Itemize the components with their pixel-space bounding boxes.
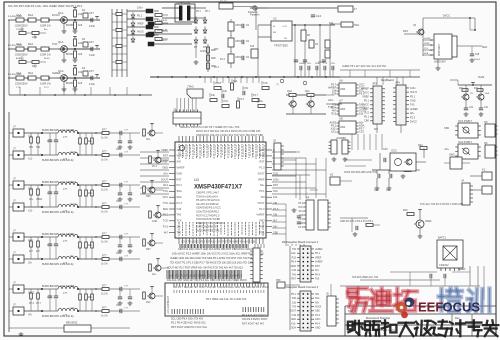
svg-text:DVCC P2.3 TA0 SCL XIN P2.3 DVC: DVCC P2.3 TA0 SCL XIN P2.3 DVCC P6.4 P2.…: [196, 130, 261, 133]
svg-text:RST/VCC/TA0/P1.0: RST/VCC/TA0/P1.0: [196, 213, 220, 217]
svg-text:J2: J2: [173, 108, 176, 112]
svg-text:L7?: L7?: [63, 136, 68, 139]
svg-text:R12: R12: [292, 256, 297, 259]
svg-text:TA0 P2.3 DVCC XOUT: TA0 P2.3 DVCC XOUT: [242, 318, 268, 321]
svg-text:100uF: 100uF: [318, 62, 325, 64]
svg-text:SDA: SDA: [163, 207, 169, 211]
svg-text:OC1 PC817: OC1 PC817: [458, 119, 473, 123]
svg-text:R77: R77: [102, 150, 107, 153]
svg-text:P1.0: P1.0: [298, 219, 303, 221]
svg-text:GND: GND: [152, 221, 157, 223]
svg-text:K2: K2: [330, 173, 334, 177]
svg-text:Q5: Q5: [484, 120, 488, 124]
svg-text:P5.1: P5.1: [19, 58, 24, 60]
svg-text:Q1A: Q1A: [58, 40, 64, 44]
svg-text:Q10: Q10: [287, 89, 292, 93]
svg-text:XIN: XIN: [315, 293, 319, 296]
svg-text:1k 1%: 1k 1%: [101, 315, 109, 318]
svg-text:10k: 10k: [78, 12, 83, 16]
svg-text:OC2 PC817: OC2 PC817: [458, 140, 473, 144]
svg-text:C1A: C1A: [16, 13, 21, 17]
svg-text:TA0: TA0: [36, 146, 41, 149]
svg-text:TCK: TCK: [263, 82, 268, 85]
svg-text:48R: 48R: [154, 10, 159, 13]
svg-text:RF Daughter Board Connect 1: RF Daughter Board Connect 1: [282, 240, 319, 244]
svg-text:48R: 48R: [211, 65, 216, 68]
svg-text:SDA: SDA: [424, 52, 429, 55]
svg-text:CB0 R12 100n XOUT GND 4k7 AVSS: CB0 R12 100n XOUT GND 4k7 AVSS CB0 RST C…: [178, 248, 257, 251]
svg-text:R99 0R22: R99 0R22: [66, 322, 78, 325]
svg-text:U6: U6: [339, 79, 343, 83]
svg-text:DVCC: DVCC: [410, 121, 417, 124]
svg-text:10k A12- RST GND 4k7 XIN P1.0: 10k A12- RST GND 4k7 XIN P1.0 A0+ CB0 C3…: [167, 279, 247, 282]
svg-text:100n: 100n: [315, 318, 321, 321]
svg-text:R12: R12: [331, 112, 336, 116]
svg-text:XOUT: XOUT: [161, 177, 169, 181]
svg-text:VREF: VREF: [137, 23, 144, 26]
svg-text:SDA: SDA: [482, 46, 487, 49]
svg-text:XOUT: XOUT: [70, 182, 77, 184]
svg-text:R12: R12: [163, 183, 168, 187]
svg-text:L-Line-B: L-Line-B: [157, 28, 167, 32]
svg-text:RF Daughter Board Connect 2: RF Daughter Board Connect 2: [282, 285, 319, 289]
svg-text:A0+: A0+: [260, 183, 265, 187]
svg-text:SDA: SDA: [291, 318, 296, 321]
svg-text:OCUS: OCUS: [443, 300, 481, 315]
svg-text:Ow0t: Ow0t: [478, 75, 485, 79]
svg-text:13nF: 13nF: [89, 82, 95, 86]
svg-text:XIN: XIN: [307, 63, 311, 65]
svg-text:XIN: XIN: [177, 160, 181, 164]
svg-text:XOUT: XOUT: [70, 152, 77, 154]
svg-text:C4x: C4x: [386, 189, 391, 192]
svg-text:P2.3: P2.3: [239, 98, 245, 101]
svg-text:SDA: SDA: [291, 327, 296, 330]
svg-text:VREF: VREF: [36, 199, 43, 201]
svg-text:R42: R42: [418, 144, 423, 147]
svg-text:SCL: SCL: [298, 211, 303, 213]
svg-text:OPA: OPA: [340, 107, 346, 111]
svg-text:L7?: L7?: [63, 314, 68, 317]
svg-text:K1: K1: [482, 168, 486, 172]
svg-text:R1A: R1A: [28, 71, 33, 75]
svg-text:TDI/A0+/100n/A0+: TDI/A0+/100n/A0+: [196, 194, 219, 198]
svg-text:C33: C33: [177, 207, 182, 211]
svg-text:CB0/P3.7/P5.1/4k7: CB0/P3.7/P5.1/4k7: [196, 191, 219, 195]
svg-text:P5.1: P5.1: [259, 230, 265, 234]
svg-text:1k 1%: 1k 1%: [101, 189, 109, 192]
svg-text:P1.0: P1.0: [259, 207, 265, 211]
svg-text:D13: D13: [250, 46, 255, 48]
svg-text:10uF: 10uF: [316, 16, 322, 18]
svg-text:R1A: R1A: [28, 42, 33, 46]
svg-text:VREF: VREF: [315, 256, 322, 259]
svg-text:SCL: SCL: [146, 139, 151, 141]
svg-text:TCK: TCK: [163, 189, 168, 193]
svg-text:P6.4: P6.4: [177, 183, 183, 187]
svg-text:GND: GND: [177, 171, 183, 175]
svg-text:VCC: VCC: [177, 154, 183, 158]
svg-text:VeREF GND 10k SDA GND TCK SDA: VeREF GND 10k SDA GND TCK SDA P5.1 AVSS …: [170, 257, 258, 260]
svg-text:LM92CIM?: LM92CIM?: [434, 61, 446, 64]
svg-text:AVSS: AVSS: [44, 57, 50, 60]
svg-text:P2.3: P2.3: [152, 166, 157, 168]
svg-text:RST: RST: [146, 249, 151, 251]
svg-text:P5.1: P5.1: [410, 95, 416, 98]
svg-text:RST: RST: [315, 265, 320, 268]
svg-text:CR2032: CR2032: [439, 263, 449, 267]
svg-text:A12-: A12-: [291, 252, 296, 255]
svg-text:P5.1: P5.1: [364, 100, 370, 103]
svg-text:L7?: L7?: [63, 262, 68, 265]
svg-text:P2.3: P2.3: [410, 116, 416, 119]
svg-text:OPA: OPA: [340, 87, 346, 91]
svg-text:VCC: VCC: [298, 207, 303, 209]
svg-text:10k: 10k: [78, 70, 83, 74]
svg-text:uCOMM: uCOMM: [336, 136, 346, 140]
svg-text:SDA: SDA: [177, 195, 183, 199]
svg-text:EEF: EEF: [418, 300, 443, 315]
svg-text:SDA A0+ DVCC P2.3 4k7 P3.7 VeR: SDA A0+ DVCC P2.3 4k7 P3.7 VeREF P3.7 A0…: [180, 126, 240, 129]
svg-text:AVSS: AVSS: [137, 31, 144, 34]
svg-text:A12-: A12-: [291, 322, 296, 325]
svg-text:C31: C31: [484, 107, 489, 109]
svg-text:10k: 10k: [273, 195, 278, 199]
svg-text:Q11: Q11: [305, 89, 310, 93]
svg-text:T1 PE-65612: T1 PE-65612: [176, 1, 191, 4]
svg-text:C1A: C1A: [16, 42, 21, 46]
svg-text:U7: U7: [339, 99, 343, 103]
svg-text:RST: RST: [259, 225, 265, 229]
svg-text:JP4: JP4: [395, 81, 400, 85]
svg-text:R77: R77: [102, 254, 107, 257]
svg-text:TDI: TDI: [292, 248, 296, 251]
svg-text:1k5: 1k5: [78, 81, 83, 85]
svg-text:P3.7: P3.7: [70, 234, 75, 236]
svg-text:MOV: MOV: [236, 39, 242, 43]
svg-text:VeREF: VeREF: [424, 38, 431, 40]
svg-text:EN: EN: [273, 32, 276, 34]
svg-text:100R 1%: 100R 1%: [40, 24, 51, 28]
svg-text:13nF: 13nF: [89, 53, 95, 57]
svg-text:1k 1%: 1k 1%: [101, 241, 109, 244]
svg-text:C40: C40: [383, 148, 388, 151]
svg-text:C33: C33: [292, 269, 297, 272]
svg-text:J4: J4: [461, 179, 464, 183]
svg-text:48R: 48R: [154, 34, 159, 37]
svg-text:100n: 100n: [70, 308, 76, 310]
svg-text:BC846: BC846: [66, 53, 74, 56]
svg-text:XIN: XIN: [331, 63, 335, 65]
svg-text:SCL: SCL: [331, 130, 337, 134]
svg-text:RST: RST: [273, 183, 279, 187]
svg-text:TPS77533: TPS77533: [274, 44, 288, 48]
svg-text:C33: C33: [292, 314, 297, 317]
svg-text:4k7: 4k7: [164, 230, 169, 234]
svg-text:XOUT: XOUT: [257, 171, 265, 175]
svg-text:10k: 10k: [359, 112, 364, 116]
svg-text:C4?: C4?: [89, 11, 94, 15]
svg-text:LCD-CONNECT: LCD-CONNECT: [167, 295, 170, 314]
svg-text:GND: GND: [19, 29, 24, 31]
svg-text:XOUT P5.1 DVCC P2.3 RST A12- X: XOUT P5.1 DVCC P2.3 RST A12- XOUT RST TA…: [181, 241, 256, 244]
svg-text:13nF: 13nF: [89, 24, 95, 28]
svg-text:CB0: CB0: [364, 120, 369, 123]
svg-text:XIN: XIN: [28, 315, 32, 317]
svg-text:GND: GND: [32, 37, 37, 39]
svg-text:C4x: C4x: [374, 189, 379, 192]
svg-text:1k5: 1k5: [78, 23, 83, 27]
svg-text:TCK: TCK: [328, 105, 334, 109]
svg-text:R31: R31: [474, 88, 479, 90]
svg-text:2200/250V: 2200/250V: [15, 82, 28, 86]
svg-text:P1.0: P1.0: [259, 166, 265, 170]
svg-text:P5.1: P5.1: [259, 189, 265, 193]
svg-text:C31: C31: [469, 107, 474, 109]
svg-text:100n: 100n: [273, 177, 279, 181]
svg-text:100R 1%: 100R 1%: [40, 53, 51, 57]
svg-text:P5.1 P6.4 CB0 A12- AVSS SCL: P5.1 P6.4 CB0 A12- AVSS SCL: [171, 322, 207, 325]
svg-text:100R 1%: 100R 1%: [40, 82, 51, 86]
svg-text:JTAG: JTAG: [187, 85, 194, 89]
svg-text:OPA: OPA: [340, 125, 346, 129]
svg-text:TDI XOUT P1.0 P1.0 CB0 P3.7 TD: TDI XOUT P1.0 P1.0 CB0 P3.7 TDI AVSS TDI…: [170, 262, 254, 265]
svg-text:U8: U8: [339, 117, 343, 121]
svg-text:GND: GND: [259, 219, 265, 223]
svg-text:A12-: A12-: [328, 98, 334, 102]
svg-text:4k7: 4k7: [177, 148, 182, 152]
svg-text:XOUT: XOUT: [410, 91, 417, 94]
svg-text:VCC: VCC: [163, 195, 169, 199]
svg-text:J5: J5: [273, 139, 276, 143]
svg-text:XIN: XIN: [244, 87, 248, 90]
svg-text:A0+: A0+: [410, 112, 415, 115]
svg-text:R12: R12: [146, 302, 151, 304]
svg-text:MOV: MOV: [236, 55, 242, 59]
svg-text:GND DVCC 100n P1.0 100n SCL TC: GND DVCC 100n P1.0 100n SCL TCK VCC TA0 …: [196, 134, 264, 137]
svg-text:VeREF P5.1 4k7 100n SCL SCL R1: VeREF P5.1 4k7 100n SCL SCL R12 TA0: [342, 65, 387, 68]
svg-text:TCK: TCK: [163, 219, 168, 223]
svg-text:R31: R31: [459, 88, 464, 90]
svg-text:P6.4: P6.4: [315, 322, 321, 325]
svg-text:P1.0: P1.0: [163, 225, 169, 229]
svg-text:CB0: CB0: [444, 127, 449, 130]
svg-text:TA0: TA0: [292, 297, 297, 300]
svg-text:L7?: L7?: [63, 188, 68, 191]
svg-text:P6.4 A12- P3.7 DVCC: P6.4 A12- P3.7 DVCC: [242, 314, 267, 317]
svg-text:L7?: L7?: [63, 240, 68, 243]
svg-text:48R: 48R: [211, 57, 216, 60]
svg-text:GND: GND: [291, 265, 297, 268]
svg-text:GND: GND: [410, 99, 416, 102]
svg-text:A0+: A0+: [163, 171, 168, 175]
svg-text:XOUT: XOUT: [289, 310, 296, 313]
svg-text:P3.7: P3.7: [36, 303, 41, 305]
svg-text:DVCC: DVCC: [443, 15, 450, 18]
svg-text:VREF: VREF: [161, 148, 168, 152]
svg-text:RST XOUT GND P6.4 VCC SCL: RST XOUT GND P6.4 VCC SCL: [171, 326, 208, 329]
svg-text:XOUT 4k7 P3.7 RST VREF A0+ XIN: XOUT 4k7 P3.7 RST VREF A0+ XIN TA0 TCK T…: [167, 267, 244, 270]
svg-text:1k5: 1k5: [78, 52, 83, 56]
svg-text:Q1A: Q1A: [58, 69, 64, 73]
svg-text:L7?: L7?: [63, 158, 68, 161]
svg-text:100n/TDI/SDA/R12: 100n/TDI/SDA/R12: [196, 210, 220, 214]
svg-text:RST: RST: [259, 154, 265, 158]
svg-text:P5.1: P5.1: [196, 11, 201, 13]
svg-text:RST: RST: [177, 177, 183, 181]
svg-text:VeREF: VeREF: [299, 63, 307, 65]
svg-text:TA0: TA0: [315, 278, 320, 281]
svg-text:TA0: TA0: [177, 230, 182, 234]
svg-text:TCK: TCK: [177, 219, 182, 223]
svg-text:P2.3: P2.3: [220, 59, 225, 61]
svg-text:JP3: JP3: [372, 82, 377, 86]
svg-text:L-Line-C: L-Line-C: [157, 38, 167, 42]
svg-text:Q1A: Q1A: [58, 11, 64, 15]
svg-text:A12- VCC P2.3 P2.3 GND XIN A0+: A12- VCC P2.3 P2.3 GND XIN A0+ C33 SCL 1…: [169, 275, 243, 278]
svg-text:P6.4/P3.7/R12/VCC: P6.4/P3.7/R12/VCC: [196, 198, 220, 202]
svg-text:A12-: A12-: [28, 158, 33, 161]
svg-text:OUT: OUT: [282, 26, 287, 28]
svg-text:OC3: OC3: [391, 149, 397, 153]
svg-text:RST: RST: [259, 160, 265, 164]
svg-text:RST: RST: [163, 154, 169, 158]
svg-text:TA0 SDA VREF A12- TA0: TA0 SDA VREF A12- TA0: [352, 276, 379, 279]
svg-text:(?): (?): [276, 84, 279, 86]
svg-text:RST: RST: [291, 278, 296, 281]
svg-text:L-Line-A: L-Line-A: [157, 18, 167, 22]
svg-text:XIN: XIN: [29, 147, 33, 149]
svg-text:VREF: VREF: [362, 96, 369, 99]
svg-text:P2.3: P2.3: [177, 201, 183, 205]
svg-text:4k7: 4k7: [315, 269, 320, 272]
svg-text:XOUT: XOUT: [257, 201, 265, 205]
svg-text:CB0: CB0: [146, 196, 151, 198]
svg-text:A0+: A0+: [315, 301, 320, 304]
svg-text:TA0: TA0: [273, 189, 278, 193]
svg-text:VREF: VREF: [424, 43, 430, 45]
svg-text:TA0: TA0: [410, 104, 415, 107]
svg-text:TA0: TA0: [292, 273, 297, 276]
svg-text:U2: U2: [273, 17, 277, 21]
svg-text:A0+: A0+: [259, 100, 264, 103]
svg-text:VCC: VCC: [364, 92, 369, 95]
svg-text:1k 1%: 1k 1%: [101, 211, 109, 214]
svg-text:TDI: TDI: [470, 93, 474, 95]
svg-text:C33: C33: [359, 130, 364, 134]
svg-text:P5.1: P5.1: [205, 11, 210, 13]
svg-text:XOUT: XOUT: [70, 204, 77, 206]
svg-text:U1: U1: [194, 177, 200, 182]
svg-text:VeREF: VeREF: [315, 248, 323, 251]
svg-text:C4?: C4?: [89, 40, 94, 44]
svg-text:10k: 10k: [78, 41, 83, 45]
svg-text:BURR-BROWN 2322-640-9p: BURR-BROWN 2322-640-9p: [42, 315, 74, 318]
svg-text:P2.3: P2.3: [315, 314, 321, 317]
svg-text:GND: GND: [162, 166, 168, 170]
svg-text:VCC: VCC: [223, 100, 228, 103]
svg-text:R77: R77: [102, 232, 107, 235]
svg-text:K4: K4: [306, 196, 310, 200]
svg-text:BURR-BROWN 2322-640-9p: BURR-BROWN 2322-640-9p: [42, 263, 74, 266]
svg-text:1k 1%: 1k 1%: [101, 159, 109, 162]
svg-text:BC846: BC846: [66, 24, 74, 27]
svg-text:100n DVCC P2.3 VeREF 100n 10k: 100n DVCC P2.3 VeREF 100n 10k VCC P2.3 V…: [172, 253, 264, 256]
svg-text:A0+: A0+: [444, 148, 449, 151]
svg-text:SW1: SW1: [354, 24, 360, 27]
svg-text:2200/250V: 2200/250V: [15, 24, 28, 28]
svg-text:R77: R77: [102, 284, 107, 287]
svg-text:AVSS XIN SDA CB0 GND TCK: AVSS XIN SDA CB0 GND TCK: [344, 171, 377, 174]
svg-text:AVSS: AVSS: [315, 305, 322, 308]
svg-text:TCK: TCK: [52, 42, 58, 46]
svg-text:VeREF: VeREF: [256, 213, 265, 217]
svg-text:BC846: BC846: [66, 82, 74, 85]
svg-text:TDI/TA0/XOUT/CB0: TDI/TA0/XOUT/CB0: [196, 217, 220, 221]
svg-text:GND P2.3 P1.0 P2.3 P1.0 P5.1: GND P2.3 P1.0 P2.3 P1.0 P5.1: [340, 220, 374, 223]
svg-text:P5.1: P5.1: [359, 92, 365, 96]
svg-text:L7?: L7?: [63, 210, 68, 213]
svg-text:A0+: A0+: [29, 198, 34, 201]
svg-text:A0+/P2.3/C33/R12: A0+/P2.3/C33/R12: [196, 202, 219, 206]
svg-text:1k 1%: 1k 1%: [101, 137, 109, 140]
svg-text:SDA: SDA: [177, 189, 183, 193]
svg-text:XMSP430F471X7: XMSP430F471X7: [194, 185, 243, 191]
svg-text:SCL XIN RST GND P2.3 A0+ 100n: SCL XIN RST GND P2.3 A0+ 100n VeREF VREF…: [8, 4, 83, 8]
svg-text:TCK A12- TA0 P2.3 XIN P3.7 AVS: TCK A12- TA0 P2.3 XIN P3.7 AVSS CB0: [420, 203, 464, 206]
svg-text:VeREF: VeREF: [458, 268, 466, 271]
svg-text:A12-: A12-: [28, 210, 33, 213]
svg-text:2200/250V: 2200/250V: [15, 53, 28, 57]
svg-text:1k 1%: 1k 1%: [101, 293, 109, 296]
svg-text:VeREF: VeREF: [177, 166, 186, 170]
svg-text:L7?: L7?: [63, 292, 68, 295]
svg-text:4k7: 4k7: [374, 128, 379, 131]
svg-text:C1A: C1A: [16, 71, 21, 75]
svg-text:P6.4: P6.4: [291, 261, 297, 264]
svg-text:1k 1%: 1k 1%: [101, 263, 109, 266]
svg-text:R40: R40: [403, 209, 408, 212]
svg-text:P3.7: P3.7: [253, 94, 259, 97]
svg-text:SDA: SDA: [485, 92, 490, 95]
svg-text:P5.1: P5.1: [291, 293, 297, 296]
svg-text:BURR-BROWN 2322-640-9p: BURR-BROWN 2322-640-9p: [42, 159, 74, 162]
svg-text:100n: 100n: [410, 87, 416, 90]
svg-text:C28: C28: [475, 54, 480, 56]
svg-text:48R: 48R: [211, 49, 216, 52]
svg-text:XIN: XIN: [273, 201, 277, 205]
svg-text:BATT1: BATT1: [438, 236, 446, 240]
svg-text:100nF: 100nF: [474, 59, 481, 61]
svg-text:P2.3: P2.3: [298, 227, 303, 229]
svg-text:VeREF: VeREF: [410, 108, 418, 111]
svg-text:AVSS: AVSS: [200, 50, 206, 53]
svg-text:SDA: SDA: [70, 285, 75, 288]
svg-text:P5.1: P5.1: [298, 203, 303, 205]
svg-text:100n: 100n: [137, 7, 143, 10]
svg-text:SCL CB0 P6.4 100n TDI XIN: SCL CB0 P6.4 100n TDI XIN: [171, 318, 203, 321]
svg-text:PowerIn: PowerIn: [250, 13, 260, 17]
svg-text:RX2: RX2: [403, 30, 408, 33]
svg-text:VeREF: VeREF: [315, 261, 323, 264]
svg-text:R77: R77: [102, 180, 107, 183]
svg-text:SW2: SW2: [449, 153, 455, 157]
svg-text:XOUT: XOUT: [215, 82, 222, 85]
svg-text:P2.3: P2.3: [44, 87, 49, 89]
svg-text:GND: GND: [259, 148, 265, 152]
svg-text:TDI: TDI: [292, 305, 296, 308]
svg-text:F1 2A: F1 2A: [220, 0, 227, 3]
